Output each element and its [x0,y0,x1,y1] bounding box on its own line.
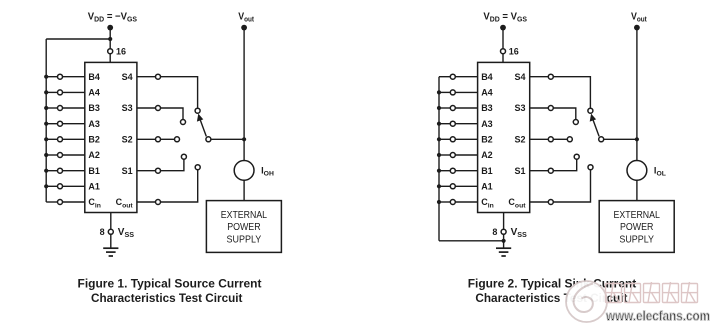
wire S1 to switch contact [161,159,184,171]
svg-text:B2: B2 [88,135,100,145]
wire S1 to switch contact [553,159,576,171]
svg-text:S2: S2 [122,135,133,145]
switch contact S4 [588,108,593,113]
svg-text:EXTERNAL: EXTERNAL [221,210,268,221]
wire A4 terminal to IC [455,91,477,93]
switch SW2 wiper arrow (pole to S4 contact) [593,120,599,137]
junction bus / A4 [437,90,441,94]
wire A3 terminal to IC [455,123,477,125]
svg-text:S3: S3 [122,103,133,113]
svg-text:B1: B1 [88,166,100,176]
wire B3 terminal to IC [63,107,85,109]
svg-text:B2: B2 [481,135,493,145]
wire A2 terminal to IC [63,154,85,156]
output terminal Cout [548,200,553,205]
svg-text:A3: A3 [481,119,493,129]
svg-text:A4: A4 [88,88,100,98]
junction VSS / input bus [502,239,506,243]
wire B2 terminal to IC [455,138,477,140]
svg-text:B4: B4 [481,72,493,82]
input terminal B4 [58,74,63,79]
svg-text:A2: A2 [88,150,100,160]
switch pole SW2 [599,137,604,142]
wire S4 to switch contact [553,77,590,109]
terminal VDD [107,25,113,31]
wire IC S4 to terminal [530,76,549,78]
svg-text:8: 8 [100,227,105,237]
junction bus / B4 [44,75,48,79]
junction bus / A3 [44,122,48,126]
wire B3 terminal to IC [455,107,477,109]
wire bus to B2 terminal [439,138,450,140]
svg-text:B4: B4 [88,72,100,82]
wire B2 terminal to IC [63,138,85,140]
svg-text:S2: S2 [514,135,525,145]
wire bus to B1 terminal [46,170,57,172]
svg-text:POWER: POWER [620,222,653,233]
wire bus to A2 terminal [46,154,57,156]
wire IC S1 to terminal [530,170,549,172]
input terminal Cin [58,200,63,205]
input terminal B1 [58,168,63,173]
svg-text:16: 16 [116,46,126,56]
output terminal S2 [156,137,161,142]
junction pole / Vout line [242,137,246,141]
external power supply [599,201,674,253]
input terminal A3 [58,121,63,126]
wire pin 16 to IC [109,54,111,63]
wire Cout to switch contact [161,170,198,202]
external power supply [206,201,281,253]
pin 16 terminal [108,49,113,54]
wire B4 terminal to IC [63,76,85,78]
ground [496,248,511,256]
input terminal B1 [450,168,455,173]
wire VDD to pin 16 [502,28,504,52]
output terminal S3 [156,106,161,111]
junction bus / A2 [437,153,441,157]
switch contact S3 [181,120,186,125]
junction bus / B3 [44,106,48,110]
input terminal A1 [450,184,455,189]
input terminal A2 [58,153,63,158]
terminal Vout [634,25,640,31]
wire S3 to switch contact [553,108,576,120]
pin 16 terminal [501,49,506,54]
pin 8 terminal [501,229,506,234]
wire B1 terminal to IC [455,170,477,172]
wire pin 16 to IC [502,54,504,63]
wire input bus to VSS node [439,240,504,242]
wire bus to A3 terminal [439,123,450,125]
input terminal B3 [450,106,455,111]
svg-text:A2: A2 [481,150,493,160]
wire A1 terminal to IC [455,185,477,187]
wire bus to B3 terminal [46,107,57,109]
input terminal B3 [58,106,63,111]
wire pin 8 to ground [503,234,505,248]
junction bus / A1 [44,184,48,188]
wire IC to pin 8 [110,213,112,230]
wire A2 terminal to IC [455,154,477,156]
terminal VDD [500,25,506,31]
watermark chinese brand glyphs (approximation) [606,282,698,303]
output terminal S1 [156,168,161,173]
wire bus to Cin terminal [46,201,57,203]
switch contact S1 [574,154,579,159]
wire bus to A4 terminal [439,91,450,93]
junction bus / Cin [437,200,441,204]
wire meter to supply [636,180,638,200]
output terminal S3 [548,106,553,111]
output terminal Cout [156,200,161,205]
junction bus / A4 [44,90,48,94]
junction bus / B1 [44,169,48,173]
IC U2 (16-pin device under test) [478,62,530,212]
switch contact S1 [181,154,186,159]
svg-text:A3: A3 [88,119,100,129]
wire IC S3 to terminal [137,107,156,109]
svg-text:A4: A4 [481,88,493,98]
svg-text:SUPPLY: SUPPLY [619,234,654,245]
input terminal A2 [450,153,455,158]
wire S2 to switch contact [161,138,175,140]
junction bus / B2 [44,137,48,141]
svg-text:S1: S1 [122,166,133,176]
input terminal Cin [450,200,455,205]
wire bus to B1 terminal [439,170,450,172]
svg-text:Characteristics Test Circuit: Characteristics Test Circuit [91,291,242,305]
junction bus / B1 [437,169,441,173]
svg-text:S3: S3 [514,103,525,113]
wire A1 terminal to IC [63,185,85,187]
input terminal A4 [58,90,63,95]
wire bus to B4 terminal [46,76,57,78]
svg-text:B3: B3 [481,103,493,113]
wire IC to pin 8 [503,213,505,230]
svg-text:POWER: POWER [227,222,260,233]
wire S4 to switch contact [161,77,198,109]
svg-text:S1: S1 [514,166,525,176]
wire pin 8 to ground [110,234,112,248]
junction bus / B3 [437,106,441,110]
watermark logo (elecfans swirl) [566,281,607,322]
junction VDD / input bus [108,37,112,41]
input terminal B2 [450,137,455,142]
svg-text:B1: B1 [481,166,493,176]
output terminal S1 [548,168,553,173]
wire bus to B4 terminal [439,76,450,78]
wire bus to A3 terminal [46,123,57,125]
output terminal S4 [548,74,553,79]
input terminal B4 [450,74,455,79]
wire IC S4 to terminal [137,76,156,78]
junction pole / Vout line [635,137,639,141]
ground [103,248,118,256]
wire bus to B2 terminal [46,138,57,140]
wire IC S2 to terminal [530,138,549,140]
wire bus to B3 terminal [439,107,450,109]
svg-text:Figure 1. Typical Source Curre: Figure 1. Typical Source Current [78,276,262,290]
current meter IOH [234,161,254,181]
wire bus to Cin terminal [439,201,450,203]
wire IC S3 to terminal [530,107,549,109]
switch contact S2 [175,137,180,142]
switch SW1 wiper arrow (pole to S4 contact) [200,120,206,137]
wire IC S1 to terminal [137,170,156,172]
input bus (inputs tied to VSS) [438,77,440,241]
wire meter to supply [243,180,245,200]
wire bus to A4 terminal [46,91,57,93]
input terminal A4 [450,90,455,95]
svg-text:A1: A1 [481,182,493,192]
svg-text:www.elecfans.com: www.elecfans.com [605,308,710,323]
wire IC S2 to terminal [137,138,156,140]
terminal Vout [241,25,247,31]
switch pole SW1 [206,137,211,142]
wire IC Cout to terminal [137,201,156,203]
junction bus / A1 [437,184,441,188]
svg-text:SUPPLY: SUPPLY [227,234,262,245]
wire Cout to switch contact [553,170,590,202]
input terminal A1 [58,184,63,189]
junction bus / A3 [437,122,441,126]
output terminal S2 [548,137,553,142]
wire bus to A1 terminal [439,185,450,187]
svg-text:EXTERNAL: EXTERNAL [614,210,661,221]
current meter IOL [627,161,647,181]
wire Vout to current meter [243,28,245,161]
wire A3 terminal to IC [63,123,85,125]
svg-text:S4: S4 [514,72,525,82]
svg-text:S4: S4 [122,72,133,82]
wire VDD to pin 16 [109,28,111,52]
svg-text:A1: A1 [88,182,100,192]
wire bus to A2 terminal [439,154,450,156]
switch contact S4 [195,108,200,113]
svg-text:16: 16 [509,46,519,56]
svg-text:8: 8 [492,227,497,237]
input terminal B2 [58,137,63,142]
wire IC Cout to terminal [530,201,549,203]
switch contact Cout [195,165,200,170]
wire S3 to switch contact [161,108,184,120]
wire Vout to current meter [636,28,638,161]
wire A4 terminal to IC [63,91,85,93]
wire Cin terminal to IC [455,201,477,203]
junction bus / B2 [437,137,441,141]
wire VDD to input bus [46,38,110,40]
svg-text:B3: B3 [88,103,100,113]
IC U1 (16-pin device under test) [85,62,137,212]
switch contact S2 [567,137,572,142]
wire B4 terminal to IC [455,76,477,78]
wire pole to Vout node [211,138,244,140]
wire Cin terminal to IC [63,201,85,203]
switch contact S3 [573,120,578,125]
wire bus to A1 terminal [46,185,57,187]
wire B1 terminal to IC [63,170,85,172]
wire S2 to switch contact [553,138,567,140]
junction bus / A2 [44,153,48,157]
output terminal S4 [156,74,161,79]
wire pole to Vout node [604,138,637,140]
switch contact Cout [588,165,593,170]
input terminal A3 [450,121,455,126]
pin 8 terminal [108,229,113,234]
input bus (inputs tied to VDD) [45,39,47,202]
